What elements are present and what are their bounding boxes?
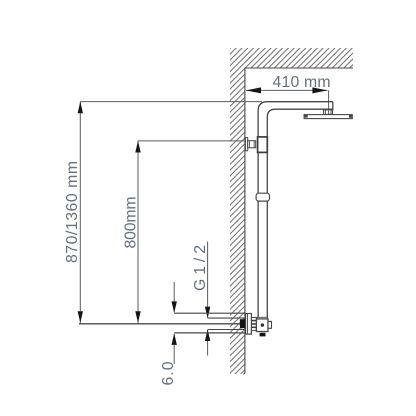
svg-text:800mm: 800mm xyxy=(123,197,140,249)
extension line top (870/1360 dim) xyxy=(80,101,262,103)
riser pipe + shower arm inner outline xyxy=(267,109,333,318)
bottom outer tube top line xyxy=(174,312,245,314)
dimension 6.0 lower line + arrow xyxy=(173,334,175,364)
slider on riser xyxy=(256,193,269,201)
knurled nut xyxy=(252,317,257,330)
wall hatching: ceiling band xyxy=(230,48,353,68)
svg-text:G1/2: G1/2 xyxy=(192,245,209,291)
bottom supply pipe line / extension line xyxy=(79,323,241,325)
valve body xyxy=(256,319,268,332)
bottom mid tube bottom line xyxy=(208,329,246,331)
arrow right (410) xyxy=(312,87,327,93)
dimension 6.0 upper line + arrow xyxy=(173,282,175,312)
ceiling inner edge line xyxy=(245,67,354,69)
arrow down (800 bottom) xyxy=(135,311,140,323)
shower head slab xyxy=(304,115,352,119)
extension line to shower head xyxy=(328,90,330,114)
wall inner edge line xyxy=(243,68,245,374)
svg-text:870/1360 mm: 870/1360 mm xyxy=(64,161,81,263)
svg-text:6.0: 6.0 xyxy=(160,361,177,385)
dimension G1/2 upper line + arrow xyxy=(207,242,209,318)
riser pipe + shower arm outer outline xyxy=(258,102,333,319)
bottom foot (black) xyxy=(260,333,266,337)
extension line (800mm dim) xyxy=(138,140,245,142)
bottom outer tube bottom line xyxy=(174,332,245,334)
right nub xyxy=(268,321,272,328)
svg-text:410 mm: 410 mm xyxy=(273,74,331,91)
bottom mid tube top line xyxy=(208,317,246,319)
shower head right cap xyxy=(349,115,352,118)
riser collar above valve xyxy=(257,317,267,319)
wall bracket arm xyxy=(248,141,256,148)
shower head left cap xyxy=(304,115,308,118)
arrow up (800 top) xyxy=(135,141,140,153)
wall bracket plate xyxy=(245,138,247,151)
arm-to-head connector nut xyxy=(324,110,333,115)
dimension line 800mm xyxy=(137,141,139,324)
dimension 410 mm line xyxy=(246,89,327,91)
arrow left (410) xyxy=(246,87,261,93)
wall hatching: vertical wall band xyxy=(230,68,245,374)
valve screw dot xyxy=(261,323,264,326)
dimension G1/2 lower line + arrow xyxy=(207,330,209,356)
arrow down (870 bottom) xyxy=(78,311,83,323)
dimension line 870/1360 xyxy=(79,102,81,324)
pipe through wall (black) xyxy=(240,319,246,328)
arm end cap xyxy=(332,102,334,111)
wall flange xyxy=(246,314,252,335)
pipe clamp block xyxy=(258,137,268,153)
arrow up (870 top) xyxy=(78,102,83,114)
